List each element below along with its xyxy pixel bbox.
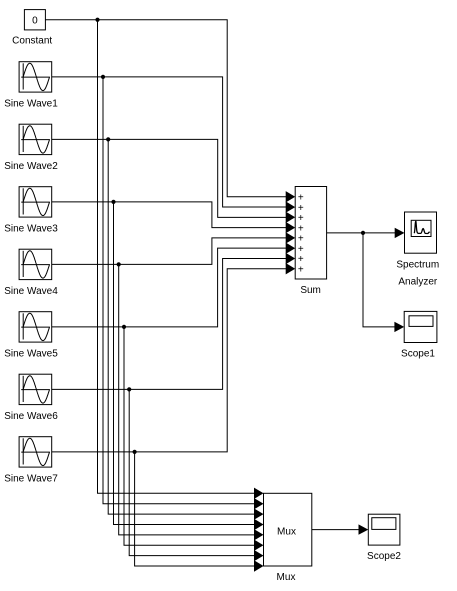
junction Sine Wave6 branch node [127, 387, 131, 391]
sine wave source block Sine Wave7 [19, 437, 52, 467]
svg-text:Sine Wave5: Sine Wave5 [4, 348, 58, 359]
Mux input port arrow 6 [254, 540, 264, 551]
constant block U: Constant [24, 10, 45, 30]
wire Constant to Sum input 1 [45, 20, 286, 197]
svg-text:Sum: Sum [300, 285, 321, 296]
Sum input port arrow 8 [286, 263, 296, 274]
svg-text:Sine Wave2: Sine Wave2 [4, 161, 58, 172]
svg-text:Sine Wave3: Sine Wave3 [4, 223, 58, 234]
sine wave source block Sine Wave1 [19, 62, 52, 92]
wire Sum output branch to Scope1 [363, 233, 395, 327]
sine wave source block Sine Wave6 [19, 374, 52, 404]
wire Sine Wave1 branch to Mux input 2 [103, 77, 254, 504]
junction Sine Wave4 branch node [117, 262, 121, 266]
wire Sine Wave6 branch to Mux input 7 [129, 389, 254, 555]
svg-text:Mux: Mux [277, 572, 296, 583]
wire Sine Wave6 to Sum input 7 [52, 258, 286, 389]
sine wave source block Sine Wave3 [19, 187, 52, 217]
svg-text:Sine Wave1: Sine Wave1 [4, 98, 58, 109]
svg-text:Scope2: Scope2 [367, 551, 401, 562]
sine wave source block Sine Wave5 [19, 312, 52, 342]
Sum input port arrow 7 [286, 253, 296, 264]
junction Sum output node [361, 231, 365, 235]
wire Sine Wave5 branch to Mux input 6 [124, 327, 254, 545]
wire Sine Wave4 branch to Mux input 5 [119, 264, 255, 534]
wire Sine Wave3 branch to Mux input 4 [114, 202, 255, 525]
svg-text:Sine Wave7: Sine Wave7 [4, 473, 58, 484]
wire Sine Wave3 to Sum input 4 [52, 202, 286, 228]
Sum input port arrow 1 [286, 191, 296, 202]
scope block Scope1 [404, 311, 437, 342]
svg-text:Constant: Constant [12, 35, 52, 46]
junction Sine Wave5 branch node [122, 325, 126, 329]
Mux input port arrow 4 [254, 519, 264, 530]
svg-text:Mux: Mux [277, 526, 296, 537]
multiplexer block Mux [264, 493, 312, 566]
svg-text:Spectrum: Spectrum [396, 259, 439, 270]
Spectrum Analyzer input port arrow [395, 228, 405, 238]
Mux input port arrow 1 [254, 488, 264, 499]
scope block U: Spectrum Analyzer [405, 212, 437, 253]
Sum input port arrow 2 [286, 201, 296, 212]
svg-text:Sine Wave6: Sine Wave6 [4, 411, 58, 422]
Sum input port arrow 6 [286, 243, 296, 254]
junction Sine Wave2 branch node [106, 137, 110, 141]
Scope2 input port arrow [359, 524, 369, 534]
sine wave source block Sine Wave4 [19, 249, 52, 279]
wire Sum output to Spectrum Analyzer [327, 232, 396, 234]
Mux input port arrow 3 [254, 508, 264, 519]
sine wave source block Sine Wave2 [19, 124, 52, 154]
Mux input port arrow 5 [254, 529, 264, 540]
wire Sine Wave2 branch to Mux input 3 [108, 139, 254, 514]
wire Sine Wave2 to Sum input 3 [52, 139, 286, 217]
svg-text:Scope1: Scope1 [401, 349, 435, 360]
junction Sine Wave7 branch node [133, 450, 137, 454]
scope block Scope2 [368, 514, 400, 545]
Sum input port arrow 4 [286, 222, 296, 233]
wire Sine Wave4 to Sum input 5 [52, 238, 286, 265]
Sum input port arrow 3 [286, 212, 296, 223]
summing block Sum [295, 187, 326, 280]
wire Mux output to Scope2 [312, 529, 359, 531]
wire Sine Wave5 to Sum input 6 [52, 248, 286, 327]
svg-text:0: 0 [32, 16, 38, 27]
svg-text:Analyzer: Analyzer [398, 276, 438, 287]
Mux input port arrow 2 [254, 498, 264, 509]
junction Constant branch node [95, 18, 99, 22]
wire Sine Wave7 branch to Mux input 8 [135, 452, 255, 566]
Scope1 input port arrow [394, 322, 404, 332]
Mux input port arrow 7 [254, 550, 264, 561]
junction Sine Wave3 branch node [111, 200, 115, 204]
svg-text:+: + [298, 264, 304, 275]
svg-text:Sine Wave4: Sine Wave4 [4, 286, 58, 297]
junction Sine Wave1 branch node [101, 75, 105, 79]
wire Sine Wave7 to Sum input 8 [52, 269, 286, 452]
wire Constant branch to Mux input 1 [98, 20, 255, 494]
Mux input port arrow 8 [254, 560, 264, 571]
Sum input port arrow 5 [286, 232, 296, 243]
wire Sine Wave1 to Sum input 2 [52, 77, 286, 207]
